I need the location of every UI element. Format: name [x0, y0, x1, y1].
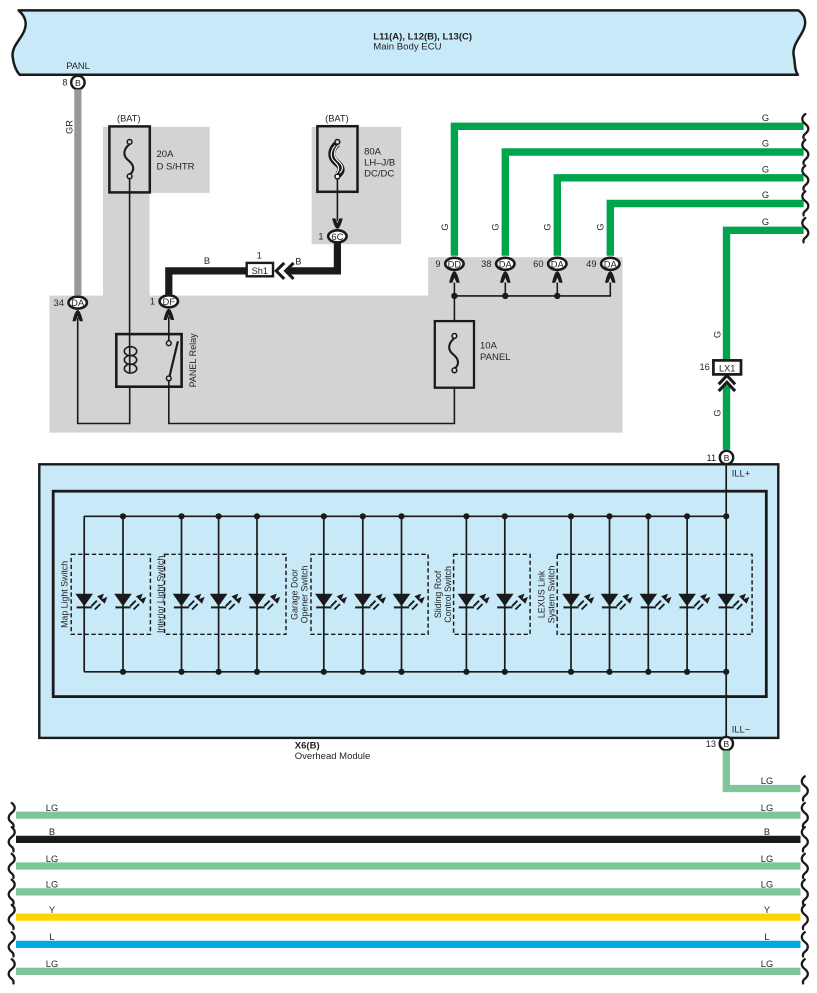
junction node top bus [398, 513, 404, 519]
svg-text:LG: LG [46, 803, 58, 813]
svg-text:X6(B): X6(B) [295, 740, 320, 751]
switch group box: Sliding Roof Control Switch [454, 554, 530, 634]
ILL+ feed wire through module [725, 464, 727, 737]
svg-text:G: G [713, 331, 723, 338]
junction node bottom bus [321, 669, 327, 675]
LED D6 [315, 594, 347, 610]
pin 13 connector B [706, 737, 733, 750]
svg-text:16: 16 [699, 362, 709, 372]
svg-text:60: 60 [533, 259, 543, 269]
wire DF to relay switch [168, 317, 170, 342]
wire break symbol right [802, 827, 808, 851]
junction node top bus [606, 513, 612, 519]
fuse 10A PANEL [435, 321, 511, 388]
arrow into 6C (down) [332, 218, 343, 228]
wire from 80A fuse to connector 6C [336, 179, 338, 221]
svg-text:B: B [204, 256, 210, 266]
wire break symbol [802, 140, 808, 164]
wire LG (horizontal, y=815) [16, 812, 801, 819]
wire 10A fuse to connector bus [453, 296, 455, 322]
svg-text:G: G [543, 223, 553, 230]
junction node bottom bus [178, 669, 184, 675]
wire break symbol right [802, 932, 808, 956]
junction node bottom bus [502, 669, 508, 675]
connector 6C pin 1 [318, 230, 346, 242]
wire break symbol left [9, 827, 15, 851]
wire break symbol [802, 166, 808, 190]
junction node bottom bus [254, 669, 260, 675]
junction node top bus [321, 513, 327, 519]
svg-text:34: 34 [54, 298, 64, 308]
junction node top bus [120, 513, 126, 519]
junction node top bus [254, 513, 260, 519]
svg-text:6C: 6C [331, 231, 343, 242]
svg-text:B: B [723, 739, 729, 749]
Overhead Module outer box [39, 464, 778, 738]
LED D11 [562, 594, 594, 610]
LED D15 [717, 594, 749, 610]
pin 8 connector B [62, 76, 84, 89]
svg-text:DA: DA [604, 258, 618, 269]
Overhead Module inner box [53, 491, 766, 696]
wire break symbol [802, 218, 808, 242]
svg-text:Garage Door: Garage Door [289, 569, 299, 620]
LED top bus [84, 515, 726, 517]
svg-text:1: 1 [318, 232, 323, 242]
svg-text:B: B [49, 827, 55, 837]
junction node bottom bus [216, 669, 222, 675]
wire G (green) to connector column x=505 [505, 152, 803, 256]
junction node top bus [723, 513, 729, 519]
junction node bottom bus [684, 669, 690, 675]
wire break symbol left [9, 854, 15, 878]
LED bottom bus [84, 671, 726, 673]
junction node top bus [684, 513, 690, 519]
svg-text:System Switch: System Switch [546, 565, 556, 623]
wire break symbol right [802, 880, 808, 904]
junction node top bus [178, 513, 184, 519]
svg-text:8: 8 [62, 78, 67, 88]
LED D7 [354, 594, 386, 610]
svg-text:Interior Light Switch: Interior Light Switch [155, 556, 165, 633]
LED D10 [496, 594, 528, 610]
wire G (green) to LX1 and pin 11 [727, 230, 804, 360]
wire G (green) to connector column x=454 [454, 126, 803, 256]
wire 20A fuse to relay coil [129, 179, 131, 348]
connector DA pin 38 with arrow [481, 258, 514, 283]
svg-text:ILL+: ILL+ [732, 468, 750, 478]
svg-text:Sh1: Sh1 [252, 266, 268, 276]
svg-text:(BAT): (BAT) [117, 113, 141, 123]
svg-text:LG: LG [46, 959, 58, 969]
pin 11 connector B [707, 451, 734, 464]
LED column 14 wire [686, 516, 688, 672]
svg-text:GR: GR [65, 120, 75, 134]
LED column 1 wire [83, 516, 85, 672]
svg-text:G: G [762, 113, 769, 123]
svg-text:G: G [762, 164, 769, 174]
switch group box: Map Light Switch [71, 554, 150, 634]
LED D13 [640, 594, 672, 610]
svg-text:Y: Y [764, 905, 770, 915]
wire break symbol [802, 191, 808, 215]
LED column 4 wire [218, 516, 220, 672]
svg-text:Overhead Module: Overhead Module [295, 751, 371, 762]
junction block shading (main lower block) [50, 296, 623, 433]
svg-text:Main Body ECU: Main Body ECU [373, 42, 441, 53]
svg-text:G: G [762, 139, 769, 149]
svg-text:L: L [764, 932, 769, 942]
LED D14 [678, 594, 710, 610]
svg-text:49: 49 [586, 259, 596, 269]
wire B (thick black) from 6C to Sh1 [272, 243, 337, 271]
svg-text:LX1: LX1 [719, 363, 735, 373]
junction block shading (20A fuse area) [103, 127, 210, 193]
svg-text:G: G [762, 217, 769, 227]
wire break symbol left [9, 932, 15, 956]
svg-text:DA: DA [499, 258, 513, 269]
connector DA pin 60 with arrow [533, 258, 566, 283]
wire relay coil to pin 34 [78, 318, 130, 424]
LED column 11 wire [570, 516, 572, 672]
svg-text:B: B [724, 453, 730, 463]
svg-text:LG: LG [761, 803, 773, 813]
junction node top bus [568, 513, 574, 519]
wire G (green) to connector column x=610 [610, 204, 803, 256]
junction node bottom bus [645, 669, 651, 675]
connector DD pin 9 with arrow [435, 258, 463, 283]
svg-text:10A: 10A [480, 340, 498, 351]
LED D9 [458, 594, 490, 610]
svg-text:Map Light Switch: Map Light Switch [60, 561, 70, 628]
svg-text:DC/DC: DC/DC [364, 169, 394, 180]
junction node bottom bus [606, 669, 612, 675]
LED D2 [114, 594, 146, 610]
wire break symbol left [9, 905, 15, 929]
svg-text:LG: LG [46, 854, 58, 864]
svg-text:20A: 20A [157, 149, 175, 160]
wire GR (gray) from pin 8 to pin 34 [74, 89, 81, 295]
junction node top bus [360, 513, 366, 519]
svg-text:B: B [75, 78, 81, 88]
svg-text:(BAT): (BAT) [325, 113, 349, 123]
LED column 13 wire [647, 516, 649, 672]
connector DA pin 34 with arrow [54, 297, 87, 322]
junction node [554, 293, 560, 299]
LED D12 [601, 594, 633, 610]
svg-text:LG: LG [761, 959, 773, 969]
svg-text:G: G [762, 190, 769, 200]
splice break chevrons at Sh1 [273, 262, 294, 280]
svg-text:80A: 80A [364, 147, 382, 158]
svg-text:DA: DA [551, 258, 565, 269]
svg-text:G: G [440, 223, 450, 230]
wire break symbol [802, 776, 808, 800]
LED column 6 wire [323, 516, 325, 672]
wire break symbol right [802, 959, 808, 983]
svg-text:B: B [295, 256, 301, 266]
switch group box: LEXUS Link System Switch [557, 554, 752, 634]
fusible link 80A LH-J/B DC/DC [317, 126, 395, 192]
svg-text:LG: LG [761, 880, 773, 890]
svg-text:G: G [596, 223, 606, 230]
svg-text:PANL: PANL [66, 61, 90, 71]
svg-text:B: B [764, 827, 770, 837]
junction node top bus [216, 513, 222, 519]
LED column 5 wire [256, 516, 258, 672]
svg-text:1: 1 [150, 297, 155, 307]
LED D5 [248, 594, 280, 610]
LED column 10 wire [504, 516, 506, 672]
Main Body ECU band [12, 10, 805, 74]
junction node bottom bus [568, 669, 574, 675]
LED D1 [75, 594, 107, 610]
junction node bottom bus [398, 669, 404, 675]
fuse 20A D S/HTR [109, 126, 194, 192]
junction node top bus [645, 513, 651, 519]
splice LX1 pin 16 [699, 360, 741, 374]
LED column 3 wire [181, 516, 183, 672]
wire G (green) to connector column x=557 [557, 178, 803, 256]
junction node [451, 293, 457, 299]
svg-text:PANEL: PANEL [480, 352, 510, 363]
svg-text:LG: LG [761, 854, 773, 864]
junction node top bus [463, 513, 469, 519]
svg-text:1: 1 [257, 250, 262, 260]
connector feed bus [454, 283, 610, 296]
svg-text:Y: Y [49, 905, 55, 915]
relay PANEL Relay [116, 333, 198, 388]
svg-text:ILL−: ILL− [732, 725, 750, 735]
wire Y (horizontal, y=917) [16, 913, 801, 920]
svg-text:13: 13 [706, 739, 716, 749]
svg-text:11: 11 [707, 453, 717, 463]
wire LG from pin 13 [726, 751, 800, 789]
LED column 9 wire [465, 516, 467, 672]
wire break symbol [802, 114, 808, 138]
wire LG (horizontal, y=866) [16, 862, 801, 869]
junction node top bus [502, 513, 508, 519]
wire relay switch to 10A fuse [169, 381, 455, 424]
svg-text:DA: DA [71, 297, 85, 308]
junction node [502, 293, 508, 299]
switch group box: Garage Door Opener Switch [311, 554, 428, 634]
svg-text:LG: LG [761, 776, 773, 786]
svg-text:LH–J/B: LH–J/B [364, 158, 395, 169]
splice break chevrons below LX1 [717, 375, 738, 391]
junction node bottom bus [463, 669, 469, 675]
connector DA pin 49 with arrow [586, 258, 619, 283]
LED D3 [173, 594, 205, 610]
wire break symbol right [802, 905, 808, 929]
svg-text:9: 9 [435, 259, 440, 269]
svg-text:LG: LG [46, 880, 58, 890]
svg-text:G: G [713, 409, 723, 416]
wire break symbol right [802, 803, 808, 827]
svg-text:L: L [49, 932, 54, 942]
svg-text:Sliding Roof: Sliding Roof [433, 570, 443, 618]
svg-text:Control Switch: Control Switch [443, 566, 453, 623]
splice Sh1 [247, 250, 273, 276]
svg-text:D S/HTR: D S/HTR [157, 162, 195, 173]
LED column 12 wire [609, 516, 611, 672]
LED D4 [210, 594, 242, 610]
svg-text:DD: DD [448, 258, 462, 269]
LED column 8 wire [401, 516, 403, 672]
svg-text:DF: DF [163, 296, 176, 307]
junction node bottom bus [723, 669, 729, 675]
LED column 2 wire [122, 516, 124, 672]
LED column 7 wire [362, 516, 364, 672]
wire break symbol left [9, 880, 15, 904]
svg-text:LEXUS Link: LEXUS Link [536, 570, 546, 618]
wire break symbol left [9, 803, 15, 827]
wire break symbol left [9, 959, 15, 983]
connector DF pin 1 with arrow [150, 295, 178, 320]
svg-text:Opener Switch: Opener Switch [299, 565, 309, 623]
wire B (thick black) from Sh1 to DF [169, 271, 246, 295]
wire LG (horizontal, y=891) [16, 888, 801, 895]
svg-text:PANEL Relay: PANEL Relay [188, 333, 198, 388]
wire break symbol right [802, 854, 808, 878]
LED D8 [393, 594, 425, 610]
svg-text:G: G [491, 223, 501, 230]
switch group box: Interior Light Switch [165, 554, 287, 634]
junction block shading (ECU connector row) [428, 257, 622, 296]
wire B (horizontal, y=839) [16, 836, 801, 843]
junction node bottom bus [120, 669, 126, 675]
junction node bottom bus [360, 669, 366, 675]
wire L (horizontal, y=944) [16, 941, 801, 948]
junction block shading (80A fuse area) [312, 127, 402, 244]
svg-text:38: 38 [481, 259, 491, 269]
wire LG (horizontal, y=971) [16, 968, 801, 975]
